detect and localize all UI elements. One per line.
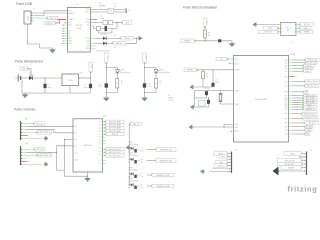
ground reset left: [190, 85, 195, 90]
module J2 body: [281, 23, 297, 45]
svg-text:SENSOR_IR1: SENSOR_IR1: [160, 149, 172, 151]
svg-text:PB6: PB6: [284, 126, 287, 128]
svg-text:PB1: PB1: [284, 81, 287, 83]
svg-text:USBDM: USBDM: [68, 13, 74, 15]
wire M2 pin4 stub: [21, 157, 26, 159]
svg-text:R?: R?: [141, 184, 143, 186]
net label GND BT: [298, 26, 311, 30]
wire U3 pin Echo_U stub: [289, 67, 293, 69]
svg-text:MOSI_RST: MOSI_RST: [285, 164, 296, 166]
wire U3 pin LED_V stub: [289, 106, 293, 108]
wire U3 pin SENSOR_LIN stub: [289, 118, 293, 120]
wire C5 to gnd rail: [44, 88, 46, 93]
net label TXD: [259, 30, 280, 34]
wire LED D1 to flag: [107, 37, 121, 39]
svg-text:470u: 470u: [99, 86, 103, 88]
svg-text:CNY (470nm): CNY (470nm): [129, 144, 139, 146]
capacitor C7 470u: [105, 83, 108, 87]
net label SENSOR_IR1: [154, 148, 176, 152]
opto sensor SENSOR_LIN1 emitter: [131, 172, 134, 175]
wire to U3 GND pin2: [224, 125, 234, 128]
svg-text:OUT: OUT: [99, 125, 102, 127]
opto sensor SENSOR_IR2 emitter: [131, 158, 134, 161]
junction reset net A: [202, 69, 203, 70]
net label 5V vertical B: [143, 53, 147, 64]
svg-text:IN4: IN4: [74, 146, 77, 148]
svg-text:Opto?: Opto?: [129, 177, 134, 180]
net label 5V_BT: [298, 23, 313, 27]
junction led net: [136, 38, 137, 39]
ground M2: [44, 162, 49, 167]
wire C12 down: [195, 104, 209, 107]
wire U3 to BT_RX: [293, 126, 304, 128]
wire U1 left stub: [63, 30, 68, 32]
svg-text:CTS: CTS: [87, 43, 90, 45]
ground USB: [49, 48, 56, 53]
net label 5V vertical A: [105, 53, 109, 64]
junction sensor row: [129, 184, 130, 185]
wire U3 pin Sensor_Lin1 stub: [289, 85, 293, 87]
svg-text:SENSOR_LIN: SENSOR_LIN: [305, 118, 318, 120]
wire gnd to U3 GND pin: [193, 126, 233, 128]
svg-text:OUT: OUT: [99, 137, 102, 139]
svg-text:OUT: OUT: [99, 131, 102, 133]
svg-text:Rojo (633nm): Rojo (633nm): [121, 72, 131, 74]
wire U4 right stub lower: [103, 163, 106, 165]
net label J3 ECHO: [214, 164, 229, 168]
wire M2 pin3: [21, 154, 37, 156]
svg-text:OUT: OUT: [99, 154, 102, 156]
wire U3 to SENSOR_IR: [293, 108, 302, 110]
wire J3 pin4: [229, 162, 231, 164]
net label USB_D-: [46, 16, 59, 19]
junction USB D+: [59, 22, 60, 23]
wire M2 pin6: [21, 163, 43, 165]
wire U3 to SDA: [293, 129, 304, 131]
svg-text:OUT: OUT: [99, 148, 102, 150]
wire red M2 pin5: [21, 160, 28, 162]
wire U4 pin MOTOR_BIN1: [103, 127, 105, 129]
wire to LED D1: [95, 37, 103, 39]
wire gnd to module: [257, 24, 280, 26]
wire module out2: [297, 27, 300, 29]
wire M2 pin2 stub: [21, 151, 26, 153]
capacitor C2b box: [108, 21, 113, 25]
svg-text:3V3: 3V3: [68, 22, 71, 24]
wire reset row: [196, 40, 217, 42]
wire U3 to MOT_A_IN2: [293, 97, 302, 99]
net label VIN_5V: [104, 133, 124, 136]
capacitor C11 22p: [205, 91, 208, 95]
motor connector M1: [21, 119, 29, 141]
wire LED4 to R4: [155, 73, 157, 79]
wire R4 to gnd: [145, 88, 157, 93]
svg-text:PB7: PB7: [284, 96, 287, 98]
net label J3 SCL: [219, 155, 229, 158]
wire ground rail power: [22, 92, 91, 94]
wire: [91, 11, 94, 13]
net label VCC vertical: [89, 62, 93, 73]
capacitor C2 ferrite box: [103, 21, 108, 25]
op-amp U4 MX1508 IC body: [73, 116, 107, 172]
wire 5V to U3: [229, 58, 234, 60]
svg-text:Opto?: Opto?: [129, 166, 134, 169]
net label RESET top: [181, 39, 197, 43]
svg-text:OSCO: OSCO: [85, 12, 90, 14]
svg-text:PB6: PB6: [284, 118, 287, 120]
wire C6 down: [90, 88, 92, 93]
junction U2 out: [90, 77, 91, 78]
wire USB pin2 stub: [31, 15, 35, 17]
net label MOT_B_OUT1: [104, 154, 124, 157]
junction M2 rail: [56, 152, 57, 153]
wire sensor out a: [137, 149, 140, 151]
wire RESET to U3: [198, 69, 233, 71]
wire J4 pin1: [303, 153, 306, 155]
ground J4: [273, 167, 280, 176]
capacitor C5: [43, 84, 46, 88]
net label MOT_A_OUT1: [104, 148, 124, 151]
svg-text:10k: 10k: [141, 161, 144, 163]
net label MOTOR_AIN2: [104, 123, 124, 126]
capacitor C9 small box: [218, 39, 221, 42]
wire red USBDP: [56, 20, 66, 23]
LED D4 red: [115, 70, 120, 73]
svg-text:3V3: 3V3: [126, 22, 129, 24]
wire M1 pin1: [21, 123, 34, 125]
wire red U1 reset: [91, 19, 98, 21]
net label RXLED: [111, 42, 125, 46]
battery BT1: [15, 73, 25, 81]
svg-text:STATE: STATE: [304, 31, 311, 34]
wire U1 left stub: [63, 38, 68, 40]
ground chain A: [103, 96, 110, 101]
net label J4 RESET: [281, 166, 303, 170]
svg-text:R?: R?: [141, 173, 143, 175]
wire U4 gnd down: [87, 172, 89, 177]
wire USB D- stub: [31, 17, 35, 19]
wire module out1: [297, 24, 300, 26]
net label Sensor_Lin1: [303, 84, 319, 87]
svg-text:R?: R?: [114, 47, 116, 49]
net label J3 SDA: [214, 152, 229, 156]
junction chain A gnd: [106, 92, 107, 93]
net label 5V reset: [203, 18, 207, 28]
svg-text:fritzing: fritzing: [288, 185, 318, 194]
net label MOT_B_IN1: [302, 99, 317, 102]
wire TXLED to gnd: [134, 37, 140, 39]
resistor R5 10k: [204, 30, 207, 38]
svg-text:PB3: PB3: [284, 107, 287, 109]
svg-text:MISO: MISO: [290, 153, 295, 155]
svg-text:C?: C?: [201, 103, 203, 105]
wire to LED3: [106, 68, 117, 70]
wire USB VCC stub: [31, 12, 35, 14]
crystal X1: [125, 8, 130, 13]
svg-text:OUT: OUT: [99, 151, 102, 153]
svg-text:Opto?: Opto?: [129, 152, 134, 155]
wire to C10: [212, 70, 214, 83]
net label MOTOR_BIN1: [104, 126, 124, 129]
wire XTAL1 row: [195, 90, 221, 92]
net label LED_V: [302, 106, 317, 109]
svg-text:SENSOR_LIN2: SENSOR_LIN2: [156, 186, 169, 188]
wire U1 left stub: [63, 40, 68, 42]
wire frame join: [57, 169, 65, 171]
svg-text:PB4: PB4: [284, 60, 287, 62]
ground U3 lower left: [189, 125, 194, 130]
wire U1 stub b: [91, 48, 96, 50]
voltage regulator U2 7805: [62, 72, 84, 85]
wire U1 left stub: [63, 33, 68, 35]
wire to 3V3 flag: [113, 22, 121, 24]
svg-text:D?: D?: [29, 72, 31, 74]
wire U4 pin MOT_B_OUT1: [103, 155, 105, 157]
capacitor C6: [89, 84, 92, 88]
wire C11 top: [206, 90, 208, 93]
ground crystal: [190, 105, 195, 110]
wire J3 pin1: [229, 153, 231, 155]
wire M1 pin4: [21, 131, 37, 133]
junction reset: [204, 40, 205, 41]
wire J4 pin6 gnd: [279, 170, 306, 172]
wire sensor out b: [147, 160, 155, 162]
LED D5 green: [154, 70, 159, 73]
opto sensor SENSOR_LIN1 detector: [134, 175, 136, 178]
svg-text:OSCI: OSCI: [86, 9, 90, 11]
svg-text:100u: 100u: [48, 87, 52, 89]
svg-text:LED? Rojo (633nm): LED? Rojo (633nm): [96, 50, 111, 52]
wire U3 pin Trig_U stub: [289, 65, 293, 67]
svg-text:PB6: PB6: [284, 134, 287, 136]
wire green 3V3 stub: [91, 22, 95, 24]
wire U3 to BT_TX: [293, 122, 304, 124]
svg-text:7805: 7805: [68, 80, 74, 82]
wire M1 pin3 stub: [21, 128, 26, 130]
svg-text:PB5: PB5: [284, 109, 287, 111]
wire U4 pin MOTOR_AIN2: [103, 124, 105, 126]
net label SENSOR_IR2: [300, 112, 317, 115]
wire VCC flag down: [90, 73, 92, 78]
component box on crystal wires: [108, 8, 114, 13]
net label SENSOR_IR2: [154, 159, 176, 163]
wire U4 right stub: [103, 139, 106, 141]
wire to C5: [44, 78, 46, 84]
ground J3: [200, 169, 205, 174]
svg-text:IN1: IN1: [74, 126, 77, 128]
diode D3: [29, 76, 33, 80]
net label J3 TRIG: [215, 161, 229, 165]
net label MOT_A_OUT2: [104, 151, 124, 154]
wire U3 pin SCL stub: [289, 133, 293, 135]
net label LED_R: [302, 104, 315, 107]
op-amp U3 ATmega328 IC body: [234, 53, 296, 142]
wire R6 down: [202, 79, 204, 88]
net label MOTOR_AIN1: [104, 120, 124, 123]
wire: [91, 9, 94, 11]
wire U1 3V3OUT: [91, 22, 108, 24]
svg-text:PB0: PB0: [284, 105, 287, 107]
svg-text:LED?: LED?: [159, 70, 163, 72]
wire U3 stub lower: [231, 131, 234, 133]
wire U2 out: [79, 77, 91, 79]
junction sensor row: [129, 148, 130, 149]
net label SENSOR_LIN2: [150, 184, 174, 188]
net label MOT_A: [33, 122, 45, 126]
junction chain A: [106, 67, 107, 68]
wire M1 pin2 to U4: [26, 125, 73, 127]
net label MOT_B: [33, 148, 45, 152]
wire sensor out a: [137, 160, 140, 162]
svg-text:R?: R?: [114, 35, 116, 37]
ground U4: [84, 176, 91, 181]
svg-text:10k: 10k: [141, 150, 144, 152]
wire U3 to MOT_B_IN1: [293, 99, 302, 101]
net label RXD: [263, 27, 279, 31]
svg-text:Verde (570nm): Verde (570nm): [159, 72, 170, 74]
wire red J4 pin2: [299, 156, 304, 158]
net label J4 SCK: [278, 159, 304, 163]
wire green U1 gnd stub: [91, 25, 94, 27]
svg-text:PB4: PB4: [284, 76, 287, 78]
capacitor C8 10u: [143, 83, 146, 87]
wire sensor out b: [147, 149, 155, 151]
net label Echo_U: [302, 67, 313, 70]
net label Sensor_Der: [304, 61, 317, 64]
svg-text:100n: 100n: [84, 87, 88, 89]
wire J3 pin7 gnd: [210, 171, 231, 173]
wire battery to D3: [21, 77, 29, 79]
wire VIN to rail: [29, 69, 31, 78]
net label SENSOR_LIN: [301, 117, 318, 120]
svg-text:PB2: PB2: [284, 123, 287, 125]
wire crystal bottom to XTAL2: [221, 101, 234, 104]
wire crystal left rail: [194, 91, 196, 108]
svg-text:C?: C?: [114, 3, 116, 5]
wire U3 pin Sensor_Izq stub: [289, 59, 293, 61]
wire U1 OSCO to X1: [91, 11, 126, 13]
wire bus to U4: [57, 145, 73, 147]
motor connector M2: [21, 144, 29, 166]
opto sensor SENSOR_LIN2 detector: [134, 186, 136, 189]
svg-text:C?: C?: [215, 79, 217, 81]
svg-text:USB: USB: [77, 28, 82, 30]
svg-text:PB2: PB2: [284, 98, 287, 100]
op-amp U1 FT232 IC body: [68, 5, 91, 52]
svg-text:1k: 1k: [121, 83, 123, 85]
junction frame bottom: [87, 176, 88, 177]
wire 5V chain B: [144, 64, 146, 84]
net label A3: [302, 90, 308, 93]
capacitor C12 22p: [207, 100, 210, 104]
svg-text:OUT: OUT: [99, 134, 102, 136]
wire M2 pin1: [21, 148, 31, 150]
junction reset net B: [212, 69, 213, 70]
wire U3 pin MOT_B_IN2 stub: [289, 102, 293, 104]
wire U3 to A3: [293, 91, 302, 93]
svg-text:1N4001: 1N4001: [29, 75, 35, 77]
svg-text:ECHO: ECHO: [218, 165, 224, 167]
opto sensor SENSOR_IR1 emitter: [131, 147, 134, 150]
svg-text:RESET: RESET: [187, 70, 194, 72]
svg-text:PB6: PB6: [284, 63, 287, 65]
svg-text:SENSOR_IR: SENSOR_IR: [306, 109, 316, 111]
net label Trig_U: [302, 64, 315, 67]
net label BT_RX: [303, 125, 313, 128]
svg-text:PB1: PB1: [284, 65, 287, 67]
svg-text:FT232: FT232: [76, 25, 83, 27]
svg-text:ENCODER_A: ENCODER_A: [39, 131, 52, 134]
pin dot U1 3V3 left: [65, 22, 67, 24]
wire C7 down: [105, 88, 107, 97]
net label ENCODER_A: [36, 131, 52, 135]
wire C12 top: [208, 98, 210, 100]
svg-text:10u: 10u: [148, 86, 151, 88]
svg-text:RTS: RTS: [87, 41, 90, 43]
net label MOT_A_IN2: [302, 97, 317, 100]
svg-text:OUT: OUT: [99, 140, 102, 142]
ground chain B: [141, 96, 148, 101]
wire left frame to U4 ground: [56, 146, 58, 170]
wire U4 right stub: [103, 136, 106, 138]
ground sensors: [126, 145, 131, 150]
net label STATE: [298, 30, 313, 34]
wire U4 pin MOT_A_OUT1: [103, 148, 105, 150]
svg-text:16MHz: 16MHz: [99, 6, 105, 8]
net label 5V U3: [216, 57, 229, 61]
wire to LED4: [145, 68, 157, 70]
wire U1 OSCI to X1: [91, 9, 126, 11]
wire U3 pin BT_RX stub: [289, 126, 293, 128]
wire 5V to R5: [204, 27, 206, 30]
svg-text:Servo_Senal: Servo_Senal: [307, 80, 318, 83]
junction U3 gnd pins: [223, 126, 224, 127]
wire RXLED to junction: [126, 38, 137, 43]
svg-text:GND: GND: [303, 28, 308, 30]
wire J4 pin5: [303, 167, 306, 169]
net label Sensor_Izq: [304, 59, 319, 62]
resistor R4: [155, 79, 158, 89]
ground power section: [22, 93, 29, 98]
svg-text:OUT: OUT: [99, 163, 102, 165]
wire M2 pin2 bus: [26, 151, 57, 153]
crystal X2: [219, 93, 223, 101]
wire U3 pin Sensor_Der stub: [289, 62, 293, 64]
svg-text:PB5: PB5: [284, 86, 287, 88]
wire U3 pin MOT_A_IN2 stub: [289, 97, 293, 99]
svg-text:OUT: OUT: [99, 160, 102, 162]
wire U1 RXLED stub: [91, 42, 96, 44]
wire TXD stub: [279, 31, 280, 33]
wire D3 to U2: [33, 77, 62, 79]
wire to C6: [90, 78, 92, 84]
svg-text:OUT: OUT: [99, 122, 102, 124]
wire U1 left stub: [63, 35, 68, 37]
net label J4 MISO: [284, 152, 303, 156]
wire USB VCC to U1: [35, 12, 68, 14]
svg-text:VIN_5V: VIN_5V: [133, 124, 140, 126]
resistor R3: [116, 79, 119, 89]
svg-text:PB2: PB2: [284, 130, 287, 132]
svg-text:ENCODER_B: ENCODER_B: [39, 155, 52, 157]
wire C11 to left rail: [195, 95, 207, 98]
net label 3V3: [121, 21, 131, 25]
net label USB_D+: [44, 21, 57, 24]
wire U4 pin VIN_5V: [103, 133, 105, 135]
capacitor C10: [211, 83, 214, 87]
wire U3 to MOT_B_IN2: [293, 102, 302, 104]
wire R5 down: [204, 38, 206, 41]
